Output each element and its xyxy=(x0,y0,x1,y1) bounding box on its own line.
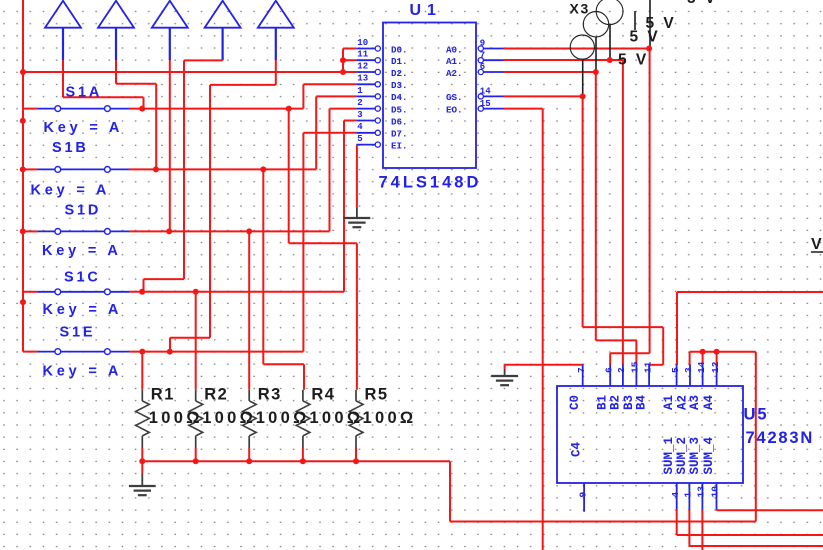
svg-text:1: 1 xyxy=(357,86,363,96)
svg-text:A4: A4 xyxy=(702,394,716,410)
svg-text:A1.: A1. xyxy=(446,56,463,67)
svg-text:S1A: S1A xyxy=(66,85,103,101)
svg-text:6: 6 xyxy=(480,62,485,72)
svg-text:13: 13 xyxy=(357,74,368,84)
svg-text:100Ω: 100Ω xyxy=(363,409,417,427)
svg-text:D2.: D2. xyxy=(391,68,408,79)
svg-text:5 V: 5 V xyxy=(630,29,661,46)
svg-text:R4: R4 xyxy=(311,386,335,404)
svg-text:7: 7 xyxy=(480,50,485,60)
svg-text:A2.: A2. xyxy=(446,68,463,79)
svg-text:13: 13 xyxy=(696,486,707,498)
svg-text:Key = A: Key = A xyxy=(43,302,123,318)
svg-text:100Ω: 100Ω xyxy=(202,409,256,427)
svg-text:14: 14 xyxy=(480,87,491,97)
svg-text:5 V: 5 V xyxy=(618,52,649,69)
svg-text:U1: U1 xyxy=(410,2,442,19)
svg-text:12: 12 xyxy=(357,61,368,71)
svg-text:4: 4 xyxy=(670,492,681,498)
svg-text:15: 15 xyxy=(630,361,641,373)
svg-text:2: 2 xyxy=(357,98,362,108)
svg-text:3: 3 xyxy=(683,367,694,373)
svg-text:D4.: D4. xyxy=(391,92,408,103)
svg-text:3: 3 xyxy=(357,110,362,120)
svg-text:11: 11 xyxy=(357,50,368,60)
svg-text:S1D: S1D xyxy=(65,203,102,219)
svg-text:5 V: 5 V xyxy=(687,0,718,7)
svg-text:Key = A: Key = A xyxy=(43,364,123,380)
svg-text:A1: A1 xyxy=(662,395,676,410)
svg-text:D1.: D1. xyxy=(391,56,408,67)
svg-text:SUM_4: SUM_4 xyxy=(702,436,716,474)
svg-text:SUM_3: SUM_3 xyxy=(688,437,702,475)
svg-text:6: 6 xyxy=(603,367,614,373)
svg-text:D5.: D5. xyxy=(391,104,408,115)
svg-text:11: 11 xyxy=(642,361,653,373)
svg-text:Key = A: Key = A xyxy=(44,120,124,136)
svg-text:A0.: A0. xyxy=(446,44,463,55)
svg-text:7: 7 xyxy=(576,367,587,373)
svg-text:Key = A: Key = A xyxy=(31,183,111,199)
svg-text:D7.: D7. xyxy=(391,129,408,140)
svg-text:R3: R3 xyxy=(258,386,282,404)
svg-text:S1C: S1C xyxy=(64,270,101,286)
svg-text:100Ω: 100Ω xyxy=(149,409,203,427)
svg-text:GS.: GS. xyxy=(446,92,463,103)
svg-text:R5: R5 xyxy=(365,386,389,404)
svg-text:1: 1 xyxy=(683,492,694,498)
svg-text:74283N: 74283N xyxy=(746,429,815,447)
svg-text:100Ω: 100Ω xyxy=(309,409,363,427)
svg-text:4: 4 xyxy=(357,122,363,132)
svg-text:D6.: D6. xyxy=(391,116,408,127)
svg-text:D0.: D0. xyxy=(391,44,408,55)
svg-text:EO.: EO. xyxy=(446,104,463,115)
svg-text:A3: A3 xyxy=(688,395,702,410)
svg-text:12: 12 xyxy=(710,361,721,373)
svg-text:EI.: EI. xyxy=(391,140,408,151)
svg-text:S1B: S1B xyxy=(52,140,89,156)
svg-text:SUM_2: SUM_2 xyxy=(675,437,689,475)
svg-text:C0: C0 xyxy=(568,395,582,410)
svg-text:9: 9 xyxy=(577,492,588,498)
svg-text:5: 5 xyxy=(670,367,681,373)
svg-text:10: 10 xyxy=(710,486,721,498)
svg-text:2: 2 xyxy=(616,367,627,373)
svg-text:74LS148D: 74LS148D xyxy=(379,174,482,192)
svg-text:10: 10 xyxy=(357,38,368,48)
svg-text:5: 5 xyxy=(357,134,362,144)
svg-text:S1E: S1E xyxy=(60,325,96,341)
svg-text:100Ω: 100Ω xyxy=(256,409,310,427)
svg-text:9: 9 xyxy=(480,39,485,49)
svg-text:C4: C4 xyxy=(570,441,584,457)
svg-text:V: V xyxy=(811,236,822,253)
svg-text:B2: B2 xyxy=(608,395,622,410)
svg-text:15: 15 xyxy=(480,99,491,109)
svg-text:D3.: D3. xyxy=(391,80,408,91)
svg-text:14: 14 xyxy=(696,361,707,373)
svg-text:X3: X3 xyxy=(570,1,590,17)
svg-text:R2: R2 xyxy=(204,386,228,404)
svg-text:U5: U5 xyxy=(744,406,769,424)
svg-text:Key = A: Key = A xyxy=(42,243,122,259)
svg-text:R1: R1 xyxy=(151,386,175,404)
svg-text:B4: B4 xyxy=(635,394,649,410)
